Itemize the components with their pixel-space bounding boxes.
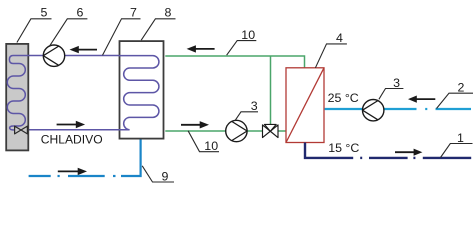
svg-text:5: 5 (41, 6, 48, 20)
svg-text:10: 10 (241, 28, 255, 42)
wire purple suction line (evaporator to compressor to condenser) (29, 55, 119, 57)
leader label 7 (103, 6, 141, 56)
wire blue condensate line 9 (29, 140, 141, 177)
svg-text:10: 10 (204, 139, 218, 153)
svg-text:25 °C: 25 °C (328, 91, 359, 105)
arrow right above 15C line (395, 149, 422, 156)
expansion valve (15, 126, 28, 134)
pump 3 (cyan circuit) (363, 100, 384, 121)
leader label 10 bottom (188, 131, 219, 153)
condenser coil (119, 56, 159, 130)
wire cyan 25C supply line (325, 108, 471, 110)
arrow right above line 9 (58, 168, 87, 175)
leader label 10 top (227, 28, 257, 55)
svg-text:7: 7 (130, 6, 137, 20)
svg-text:CHLADIVO: CHLADIVO (41, 133, 103, 147)
svg-text:8: 8 (164, 6, 171, 20)
svg-text:4: 4 (336, 31, 343, 45)
three-way mixing valve (263, 124, 279, 137)
pump 3 (green circuit) (226, 120, 247, 141)
wire green branch to three-way valve (270, 56, 272, 125)
svg-text:3: 3 (251, 99, 258, 113)
arrow right above bottom green line (181, 121, 209, 128)
arrow left above 25C line (408, 96, 435, 103)
leader label 6 (50, 6, 88, 46)
evaporator 5 body (6, 44, 28, 150)
leader label 4 (315, 31, 347, 68)
leader label 2 (437, 81, 474, 109)
svg-text:1: 1 (457, 131, 464, 145)
evaporator coil (7, 56, 29, 131)
arrow right above CHLADIVO line (57, 121, 86, 128)
heat exchanger 4 body (286, 68, 324, 143)
svg-text:3: 3 (393, 76, 400, 90)
svg-text:9: 9 (161, 169, 168, 183)
leader label 5 (17, 6, 52, 43)
leader label 1 (441, 131, 473, 158)
svg-text:2: 2 (458, 81, 465, 95)
wire navy 15C return line (305, 143, 471, 158)
leader label 3 green pump (235, 99, 258, 120)
condenser 8 body (120, 41, 164, 139)
leader label 9 (142, 166, 174, 184)
leader label 3 cyan pump (379, 76, 404, 100)
wire green supply line top (condenser to heat exchanger) (165, 56, 304, 68)
compressor 6 (43, 45, 64, 66)
arrow left above suction line (70, 46, 98, 53)
svg-text:15 °C: 15 °C (328, 141, 359, 155)
leader label 8 (141, 6, 175, 41)
wire CHLADIVO liquid line (expansion valve to condenser) (27, 129, 119, 131)
svg-text:6: 6 (77, 6, 84, 20)
wire green return line bottom (condenser to heat exchanger) (165, 130, 286, 132)
arrow left above top green line (187, 45, 215, 52)
